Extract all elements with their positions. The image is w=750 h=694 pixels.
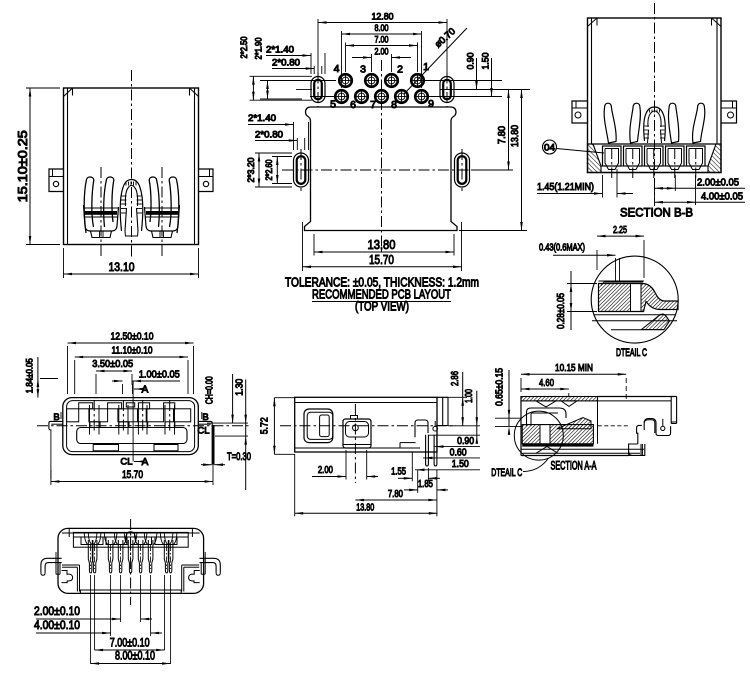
dim CH=0.00 — [207, 422, 248, 424]
section A-A body outline — [520, 397, 522, 456]
svg-text:0.90: 0.90 — [466, 53, 477, 70]
bottom view body outline — [58, 528, 204, 593]
top view center tab — [126, 403, 134, 407]
bottom view vertical centerline — [130, 519, 132, 605]
dim 10.15 MIN — [520, 378, 522, 392]
bottom dim extension lines — [120, 575, 122, 622]
section A-A legs — [629, 444, 645, 455]
svg-text:2.00: 2.00 — [318, 465, 333, 476]
svg-text:15.10±0.25: 15.10±0.25 — [16, 130, 30, 202]
dim 0.43(0.6MAX) — [615, 258, 617, 282]
dim 15.70 bottom — [303, 266, 462, 268]
balloon 04 leader — [557, 149, 605, 154]
dim 1.50 — [491, 58, 493, 97]
dim 13.80 right — [459, 230, 527, 232]
svg-text:12.50±0.10: 12.50±0.10 — [111, 331, 154, 343]
svg-text:0.65±0.15: 0.65±0.15 — [495, 368, 506, 406]
svg-text:4.60: 4.60 — [539, 377, 554, 389]
dim 15.10±0.25 — [29, 88, 31, 245]
dim 1.85 — [417, 470, 419, 493]
svg-text:7.00: 7.00 — [375, 35, 389, 46]
svg-text:5.72: 5.72 — [259, 417, 271, 434]
dim 4.00±0.10 — [36, 632, 111, 634]
section B-B center tongue — [644, 107, 666, 141]
slot centerline reference — [296, 89, 312, 91]
svg-text:B: B — [53, 412, 59, 423]
pin 1 hole — [411, 74, 424, 87]
front view top-right corner notch — [189, 88, 191, 96]
section A-A fold tab 1 — [536, 401, 556, 407]
upper left oval slot — [311, 77, 325, 103]
svg-text:1.50: 1.50 — [452, 459, 469, 470]
svg-text:1.50: 1.50 — [481, 53, 492, 70]
pcb horizontal centerline — [282, 169, 484, 171]
dim 13.10 — [64, 273, 199, 275]
dim 4.00±0.05 — [655, 201, 746, 203]
svg-text:2*2.50: 2*2.50 — [239, 37, 249, 59]
bottom view mouth bottom — [80, 590, 181, 593]
front view left spring centerline — [100, 167, 102, 256]
dim 1.45(1.21MIN) — [602, 175, 604, 198]
svg-text:15.70: 15.70 — [369, 252, 394, 267]
bottom pin row reference line — [310, 96, 334, 98]
svg-text:CL: CL — [120, 457, 132, 468]
dim 2*3.20 — [255, 152, 292, 154]
section A-A hatched wedge — [557, 418, 591, 429]
section B-B left hatched wall — [588, 144, 602, 173]
front view right contact spring — [169, 177, 179, 233]
svg-text:7.80: 7.80 — [388, 489, 403, 500]
bottom view left wing — [41, 552, 80, 592]
dim 7.00 extension lines — [345, 43, 347, 73]
svg-text:2.25: 2.25 — [613, 224, 627, 236]
dim 7.00 — [346, 45, 418, 47]
bottom view contact box — [106, 537, 127, 545]
top view body outline — [63, 398, 199, 455]
dim 13.80 bottom extension lines — [313, 234, 315, 256]
svg-text:1.84±0.05: 1.84±0.05 — [25, 358, 35, 393]
dim 2*1.90 — [260, 80, 302, 82]
dim 8.00 — [342, 33, 422, 35]
dim 7.80 — [471, 169, 513, 171]
side view pin hole — [433, 426, 438, 431]
bottom view pin needle x=170.6 — [168, 540, 173, 573]
dim 2*2.60 — [272, 156, 292, 158]
svg-text:7: 7 — [370, 99, 376, 111]
svg-text:2.00: 2.00 — [375, 47, 389, 58]
svg-text:15.70: 15.70 — [122, 469, 143, 481]
dim 12.50±0.10 — [67, 346, 69, 394]
dim 12.80 extension lines — [317, 19, 319, 75]
dim 13.10 extension lines — [63, 248, 65, 278]
top view T bar leg — [212, 425, 215, 465]
svg-text:(TOP VIEW): (TOP VIEW) — [355, 299, 409, 314]
dim 1.30 — [215, 435, 248, 437]
dim 7.80 — [355, 499, 437, 501]
svg-text:CH=0.00: CH=0.00 — [204, 376, 216, 404]
bottom view pin needle x=166.6 — [164, 540, 169, 573]
pcb body outline — [305, 107, 458, 231]
section A-A top hatched strip — [521, 397, 598, 401]
svg-text:13.80: 13.80 — [356, 502, 374, 513]
dim 15.10±0.25 extension lines — [26, 87, 60, 89]
side view body outline — [295, 397, 437, 452]
bottom view contact box — [155, 537, 177, 545]
leader φ0.70 — [404, 28, 467, 94]
dim 7.00±0.10 — [95, 649, 165, 651]
side view horizontal centerline — [280, 425, 456, 427]
svg-text:1.85: 1.85 — [418, 479, 433, 490]
svg-text:1.00±0.05: 1.00±0.05 — [139, 368, 180, 380]
dim 0.28±0.05 — [567, 283, 597, 285]
svg-text:2*3.20: 2*3.20 — [246, 158, 256, 183]
section A-A main hatched block — [522, 425, 593, 444]
svg-text:8.00: 8.00 — [375, 23, 389, 34]
svg-text:2*1.40: 2*1.40 — [248, 113, 276, 124]
dim 15.70 — [50, 470, 52, 485]
dim 2.00±0.10 — [36, 618, 121, 620]
section A-A bracket tab — [637, 425, 642, 444]
detail C circle — [591, 256, 678, 343]
bottom view center needle hood — [125, 532, 135, 541]
svg-text:8: 8 — [391, 99, 397, 111]
dim 0.65±0.15 — [495, 417, 521, 419]
section B-B terminal 2 — [624, 146, 643, 166]
section B-B terminal 4 — [666, 146, 685, 166]
svg-text:13.80: 13.80 — [368, 237, 396, 252]
svg-text:1.00: 1.00 — [463, 389, 475, 403]
lower left oval slot — [294, 153, 309, 187]
section A-A bracket hole — [661, 426, 665, 430]
svg-text:B: B — [202, 412, 208, 423]
section B-B terminal 3 — [645, 146, 664, 166]
dim 11.10±0.10 — [74, 360, 76, 394]
svg-text:7.00±0.10: 7.00±0.10 — [110, 636, 150, 650]
dim 1.00±0.05 — [122, 384, 124, 394]
pin 3 hole — [365, 74, 378, 87]
section B-B terminal 1 — [603, 146, 622, 166]
front view center tongue contact — [120, 180, 142, 232]
svg-text:DTEAIL C: DTEAIL C — [491, 467, 522, 479]
bottom view pin needle x=150.6 — [148, 540, 153, 573]
dim 4.60 — [568, 393, 570, 397]
dim 2*1.40 lower — [293, 122, 295, 150]
pin 8 hole — [395, 90, 408, 103]
dim 8.00 extension lines — [341, 31, 343, 88]
dim 2.00±0.05 — [654, 178, 656, 206]
detail C circle on section A-A — [514, 411, 563, 460]
section A-A dark band — [522, 444, 593, 447]
section B-B terminal 5 — [687, 146, 706, 166]
dim 2.00 — [352, 57, 372, 59]
section A-A lower line 1 — [521, 448, 644, 450]
front view body outline — [64, 88, 199, 245]
svg-text:2*0.80: 2*0.80 — [272, 58, 300, 69]
side view contact block — [343, 419, 371, 448]
dim 2*0.80 upper — [313, 66, 315, 74]
section B-B prong 2 — [630, 103, 641, 143]
section B-B vertical centerline — [654, 3, 656, 200]
front view right spring centerline — [161, 167, 163, 256]
svg-text:1.30: 1.30 — [234, 379, 246, 396]
pin 6 hole — [355, 90, 368, 103]
svg-text:CL: CL — [197, 426, 209, 437]
section A-A clamp hook — [527, 408, 567, 426]
side view legs — [426, 435, 429, 466]
svg-text:3: 3 — [360, 64, 366, 76]
section A-A right bracket — [598, 396, 677, 398]
svg-text:8.00±0.10: 8.00±0.10 — [115, 649, 155, 663]
dim 1.00 — [428, 434, 480, 436]
svg-text:3.50±0.05: 3.50±0.05 — [92, 358, 133, 370]
top view top tabs row — [79, 403, 93, 409]
dim 1.55 — [411, 452, 413, 481]
front view left inner wall — [67, 88, 69, 245]
top pin row reference line — [300, 80, 336, 82]
svg-text:0.60: 0.60 — [450, 447, 467, 458]
detail C top lip — [601, 282, 643, 286]
detail C leader — [523, 458, 549, 472]
bottom view contact box — [131, 537, 152, 545]
pcb vertical centerline — [381, 60, 383, 252]
lower right oval slot — [455, 153, 470, 187]
svg-text:A: A — [142, 457, 149, 468]
svg-text:4.00±0.10: 4.00±0.10 — [34, 618, 80, 632]
svg-text:DTEAIL C: DTEAIL C — [616, 347, 647, 359]
bottom view pin needle x=94.6 — [92, 540, 97, 573]
section B-B prong 1 — [604, 103, 616, 143]
section B-B left ear — [572, 101, 588, 123]
section B-B prong 3 — [668, 103, 678, 143]
svg-text:9: 9 — [428, 98, 434, 110]
section B-B right hatched wall — [708, 144, 721, 173]
svg-text:2*1.90: 2*1.90 — [254, 38, 264, 60]
dim 13.80 bottom — [314, 251, 454, 253]
top view bottom tabs — [93, 445, 118, 451]
svg-text:7.80: 7.80 — [497, 126, 508, 144]
svg-text:1.55: 1.55 — [391, 467, 406, 478]
detail C foot piece — [642, 314, 670, 329]
svg-text:0.28±0.05: 0.28±0.05 — [556, 293, 567, 329]
section A-A fold tab 2 — [561, 401, 577, 407]
detail C hatched block — [599, 284, 679, 312]
balloon 04 — [543, 140, 557, 154]
dim 2.00 side — [345, 450, 347, 480]
bottom view pin needle x=130.6 — [128, 540, 133, 573]
svg-text:10.15 MIN: 10.15 MIN — [555, 362, 593, 374]
svg-text:12.80: 12.80 — [372, 12, 394, 23]
svg-text:A: A — [142, 385, 149, 396]
svg-text:5: 5 — [330, 99, 336, 111]
top view contact tip rects — [90, 422, 100, 428]
svg-text:0.90: 0.90 — [457, 436, 474, 447]
section B-B body outline — [588, 18, 722, 173]
top view mouth — [77, 428, 187, 444]
top view left pin B — [49, 421, 63, 430]
front view top-left corner notch — [72, 88, 74, 96]
front view vertical centerline — [131, 70, 133, 258]
dim 2.25 — [596, 250, 598, 270]
svg-text:4: 4 — [334, 63, 340, 75]
bottom view pin needle x=140.6 — [138, 540, 143, 573]
section cut line A — [132, 381, 134, 462]
pin 9 hole — [415, 90, 428, 103]
dim 2*2.50 — [250, 75, 313, 77]
section B-B prong 4 — [693, 103, 705, 143]
dim 2.00 extension lines — [371, 54, 373, 72]
dim 0.90 — [434, 446, 480, 448]
svg-text:11.10±0.10: 11.10±0.10 — [112, 345, 153, 357]
svg-text:SECTION A-A: SECTION A-A — [551, 461, 597, 473]
section B-B base block — [588, 144, 722, 173]
front view right mounting ear — [199, 169, 214, 192]
pin 5 hole — [335, 90, 348, 103]
front view left mounting ear — [49, 169, 64, 192]
dim 2*1.40 upper — [310, 53, 312, 74]
svg-text:13.10: 13.10 — [109, 260, 135, 274]
dim 8.00±0.10 — [91, 663, 171, 665]
dim 13.80 side — [294, 454, 296, 516]
front view right inner wall — [194, 88, 196, 245]
svg-text:2*0.80: 2*0.80 — [255, 130, 283, 141]
svg-text:2.86: 2.86 — [449, 371, 461, 386]
bottom view pin needle x=90.6 — [88, 540, 93, 573]
dim T=0.30 — [201, 464, 212, 466]
svg-text:2.00±0.10: 2.00±0.10 — [34, 604, 80, 618]
bottom view pin needle x=120.6 — [118, 540, 123, 573]
detail C lower lines — [594, 314, 676, 316]
bottom view pin needle x=110.6 — [108, 540, 113, 573]
bottom view right wing — [182, 552, 221, 592]
dim 3.50±0.05 — [95, 374, 97, 394]
pin 4 hole — [339, 74, 352, 87]
svg-text:4.00±0.05: 4.00±0.05 — [701, 191, 743, 203]
svg-text:6: 6 — [350, 99, 356, 111]
svg-text:0.43(0.6MAX): 0.43(0.6MAX) — [539, 243, 585, 254]
svg-text:2: 2 — [397, 64, 403, 76]
top view pocket boxes row — [67, 409, 79, 422]
svg-text:2.00±0.05: 2.00±0.05 — [697, 177, 739, 189]
side view right hook — [415, 420, 428, 437]
section A-A bottom fold tab — [536, 447, 558, 454]
bottom view inner recess — [73, 532, 188, 547]
svg-text:04: 04 — [544, 143, 555, 154]
dim 12.80 — [318, 22, 447, 24]
dim 0.90 — [470, 80, 502, 82]
section B-B top-right notch — [711, 18, 713, 26]
svg-text:SECTION B-B: SECTION B-B — [620, 206, 693, 220]
section A-A lower line 2 — [521, 452, 640, 454]
dim 15.70 bottom extension lines — [302, 222, 304, 271]
svg-text:1.45(1.21MIN): 1.45(1.21MIN) — [537, 181, 594, 193]
dim 2.86 — [448, 396, 467, 398]
top view contact rails — [89, 405, 91, 435]
dim 0.60 — [423, 457, 480, 459]
bottom view contact box — [81, 537, 103, 545]
pin 2 hole — [385, 74, 398, 87]
top view horizontal centerline — [37, 425, 250, 427]
top view right pin B — [198, 421, 213, 426]
pin 7 hole — [375, 90, 388, 103]
side view right flange — [442, 397, 444, 425]
dim 1.84±0.05 — [40, 378, 58, 380]
section B-B top-left notch — [596, 18, 598, 26]
svg-text:13.80: 13.80 — [510, 125, 521, 147]
dim 5.72 — [274, 397, 294, 399]
dim 2*0.80 lower — [296, 138, 298, 150]
front view left contact spring — [84, 177, 94, 233]
svg-text:T=0.30: T=0.30 — [227, 451, 251, 463]
svg-text:2*2.60: 2*2.60 — [264, 160, 274, 181]
section B-B right ear — [721, 101, 737, 123]
side view clamp hook — [304, 409, 333, 443]
svg-text:2*1.40: 2*1.40 — [266, 45, 294, 56]
upper right oval slot — [440, 77, 454, 103]
dim 1.50 — [415, 469, 480, 471]
